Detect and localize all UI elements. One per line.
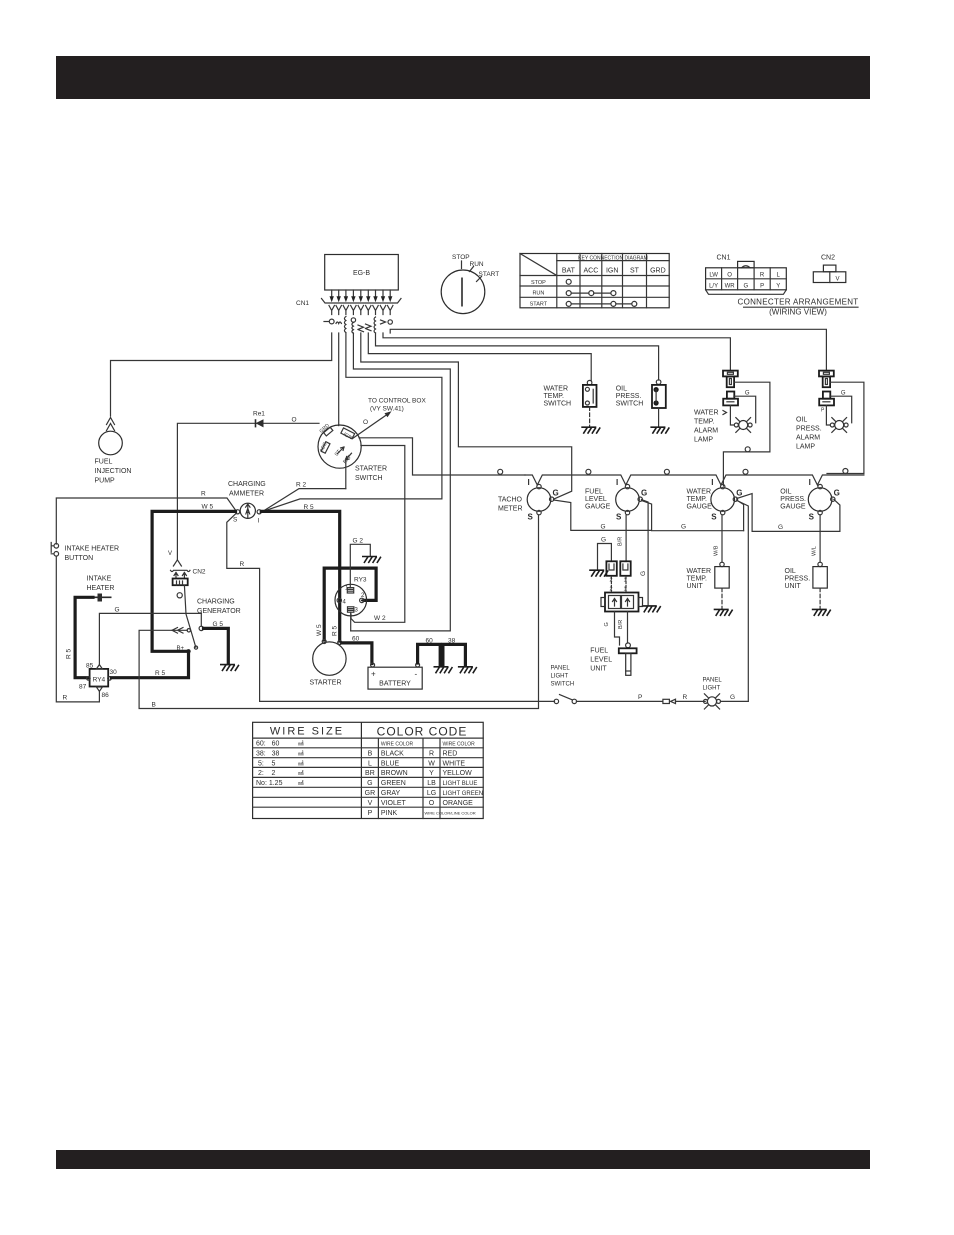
svg-text:STARTER: STARTER xyxy=(355,466,387,473)
svg-text:BLUE: BLUE xyxy=(381,760,400,767)
svg-text:I: I xyxy=(528,478,530,487)
svg-text:P: P xyxy=(638,694,642,701)
svg-text:OIL: OIL xyxy=(796,417,807,424)
svg-text:START: START xyxy=(530,302,548,308)
svg-text:RY4: RY4 xyxy=(93,677,106,684)
wire CN1 pin6 to water temp switch xyxy=(368,333,591,380)
water temp switch xyxy=(544,380,597,407)
svg-text:SWITCH: SWITCH xyxy=(355,475,383,482)
svg-text:ALARM: ALARM xyxy=(796,435,820,442)
wire G panel light up xyxy=(737,501,748,702)
starter switch xyxy=(318,422,387,482)
svg-text:SWITCH: SWITCH xyxy=(616,401,644,408)
svg-text:W 2: W 2 xyxy=(374,615,386,622)
svg-text:VIOLET: VIOLET xyxy=(381,800,407,807)
svg-text:㎟: ㎟ xyxy=(298,779,304,787)
svg-text:B/R: B/R xyxy=(618,620,624,629)
wire W5 starter to RY3-2 xyxy=(324,568,376,640)
svg-text:GRD: GRD xyxy=(650,268,666,275)
svg-text:P: P xyxy=(368,810,373,817)
svg-text:CHARGING: CHARGING xyxy=(197,599,235,606)
svg-text:R 2: R 2 xyxy=(296,482,307,489)
svg-text:㎟: ㎟ xyxy=(298,759,304,767)
svg-text:W 5: W 5 xyxy=(202,504,214,511)
svg-text:RED: RED xyxy=(443,750,458,757)
wire G2 RY3-1 to ground xyxy=(350,544,370,587)
svg-text:LEVEL: LEVEL xyxy=(585,496,607,503)
svg-text:GRAY: GRAY xyxy=(381,790,401,797)
svg-text:CN1: CN1 xyxy=(296,300,309,307)
wire color O label below CN2 xyxy=(177,593,182,598)
svg-text:GAUGE: GAUGE xyxy=(585,504,611,511)
wire W2 RY3-3 down split xyxy=(350,612,352,631)
wire G5 generator to ground xyxy=(199,626,203,630)
EG-B control unit box xyxy=(325,255,399,291)
svg-text:2: 2 xyxy=(610,587,613,593)
svg-text:BATTERY: BATTERY xyxy=(379,681,411,688)
svg-text:ST: ST xyxy=(630,268,640,275)
wire starter switch ST to W2 run xyxy=(351,446,405,623)
svg-text:PUMP: PUMP xyxy=(95,478,116,485)
svg-text:60: 60: 60: 60 xyxy=(256,741,279,748)
gauge WATER TEMP. GAUGE xyxy=(687,478,743,522)
connector CN2 engine side xyxy=(171,569,206,586)
starter motor xyxy=(310,640,347,687)
svg-text:CN2: CN2 xyxy=(821,255,835,262)
dashed wire WT switch to ground xyxy=(589,407,591,427)
svg-text:LB: LB xyxy=(427,780,436,787)
svg-text:5: 5: 5: 5 xyxy=(256,760,276,767)
svg-text:G 5: G 5 xyxy=(213,621,224,628)
relay RY3 xyxy=(335,577,367,616)
svg-text:V: V xyxy=(368,800,373,807)
svg-text:LEVEL: LEVEL xyxy=(590,657,612,664)
svg-text:R 5: R 5 xyxy=(332,626,339,637)
svg-text:LG: LG xyxy=(427,790,436,797)
svg-text:(VY SW.41): (VY SW.41) xyxy=(370,406,404,413)
svg-text:G: G xyxy=(730,694,735,701)
V wire arrow into CN2 xyxy=(173,560,181,566)
svg-text:G: G xyxy=(681,524,686,531)
wire R button to RY4 86 xyxy=(56,556,99,702)
gauge FUEL LEVEL GAUGE xyxy=(585,478,647,522)
key connection diagram table xyxy=(520,254,669,308)
svg-text:RY3: RY3 xyxy=(354,577,367,584)
svg-text:W 5: W 5 xyxy=(316,624,323,636)
svg-text:INJECTION: INJECTION xyxy=(95,468,132,475)
svg-text:UNIT: UNIT xyxy=(590,666,607,673)
oil press unit xyxy=(785,515,828,609)
svg-text:LAMP: LAMP xyxy=(796,444,815,451)
wire R5 intake heater to RY4 87 xyxy=(75,597,93,677)
svg-text:G: G xyxy=(601,524,606,531)
svg-text:AMMETER: AMMETER xyxy=(229,491,264,498)
svg-text:STOP: STOP xyxy=(531,280,546,286)
svg-text:TO CONTROL BOX: TO CONTROL BOX xyxy=(368,398,426,405)
svg-text:RUN: RUN xyxy=(470,261,484,268)
svg-text:No: 1.25: No: 1.25 xyxy=(256,780,283,787)
gauge TACHO METER xyxy=(498,478,559,522)
svg-text:UNIT: UNIT xyxy=(687,583,704,590)
panel light switch xyxy=(551,666,577,704)
svg-text:R 5: R 5 xyxy=(66,649,73,660)
oil press alarm lamp wiring loop xyxy=(830,382,864,473)
svg-text:㎟: ㎟ xyxy=(298,769,304,777)
header bar xyxy=(56,56,870,99)
svg-text:CONNECTER ARRANGEMENT: CONNECTER ARRANGEMENT xyxy=(738,298,859,307)
wire G tacho to G bus xyxy=(554,500,649,530)
svg-text:STOP: STOP xyxy=(452,254,470,261)
svg-text:COLOR CODE: COLOR CODE xyxy=(377,725,468,739)
ground for G5 xyxy=(220,665,239,672)
svg-text:G: G xyxy=(601,537,606,544)
svg-text:O: O xyxy=(292,417,297,424)
svg-text:LIGHT: LIGHT xyxy=(551,674,569,680)
svg-text:GR: GR xyxy=(365,790,376,797)
charging generator xyxy=(172,585,241,653)
svg-text:P: P xyxy=(760,284,764,290)
svg-text:B/R: B/R xyxy=(618,537,624,546)
intake heater button xyxy=(51,543,119,563)
svg-text:R: R xyxy=(63,695,68,702)
wire starter switch IGN to gauges bus xyxy=(359,438,525,475)
svg-text:60: 60 xyxy=(426,638,434,645)
svg-text:RUN: RUN xyxy=(532,291,544,297)
svg-text:S: S xyxy=(616,513,622,522)
svg-text:EG-B: EG-B xyxy=(353,270,370,277)
svg-text:LIGHT BLUE: LIGHT BLUE xyxy=(443,781,478,787)
relay RY4 xyxy=(79,663,117,700)
svg-text:BR: BR xyxy=(365,770,375,777)
svg-text:G: G xyxy=(834,489,840,498)
svg-text:G: G xyxy=(736,489,742,498)
wire OIL switch to ground xyxy=(658,408,660,427)
svg-text:KEY CONNECTION DIAGRAM: KEY CONNECTION DIAGRAM xyxy=(578,256,648,262)
wire G water temp gauge to G bus xyxy=(737,494,753,532)
svg-text:㎟: ㎟ xyxy=(298,749,304,757)
svg-text:L: L xyxy=(368,760,372,767)
CN1 connector wiring view xyxy=(706,255,787,295)
wire 60 battery - to ground xyxy=(418,644,441,665)
svg-text:GAUGE: GAUGE xyxy=(780,504,806,511)
wire CN1 pin9 to oil press alarm lamp xyxy=(390,329,826,370)
svg-text:85: 85 xyxy=(86,663,94,670)
svg-text:INTAKE HEATER: INTAKE HEATER xyxy=(65,546,120,553)
svg-text:30: 30 xyxy=(110,669,118,676)
wire CN1 pin5 to tacho G xyxy=(361,333,572,499)
svg-text:I: I xyxy=(711,478,713,487)
svg-text:2: 2: 2: 2 xyxy=(256,770,276,777)
svg-text:86: 86 xyxy=(102,692,110,699)
svg-text:㎟: ㎟ xyxy=(298,740,304,748)
svg-text:G: G xyxy=(640,571,647,576)
svg-text:CN1: CN1 xyxy=(717,255,731,262)
svg-text:-: - xyxy=(415,670,418,679)
svg-text:O: O xyxy=(727,273,732,279)
svg-text:O: O xyxy=(429,800,435,807)
wire R connector to panel light xyxy=(676,700,706,702)
svg-text:GAUGE: GAUGE xyxy=(687,504,713,511)
svg-text:G: G xyxy=(641,489,647,498)
oil press alarm lamp xyxy=(830,418,848,433)
to control box arrow xyxy=(353,398,427,439)
svg-text:TACHO: TACHO xyxy=(498,497,523,504)
wire G RY4 85 up to G run xyxy=(99,613,201,664)
wire G fuel gauge to G bus and ground xyxy=(642,500,744,606)
svg-text:OIL: OIL xyxy=(780,489,791,496)
gauge OIL PRESS. GAUGE xyxy=(780,478,840,522)
harness inline connector symbols xyxy=(324,317,392,334)
svg-text:BROWN: BROWN xyxy=(381,770,408,777)
intake heater xyxy=(87,576,115,602)
CN1 pin arrows from EG-B xyxy=(330,290,393,302)
svg-text:BLACK: BLACK xyxy=(381,750,404,757)
svg-text:L/Y: L/Y xyxy=(709,284,718,290)
svg-text:WIRE COLOR: WIRE COLOR xyxy=(381,742,414,748)
panel light lamp xyxy=(703,678,723,710)
svg-text:V: V xyxy=(835,277,839,283)
svg-text:INTAKE: INTAKE xyxy=(87,576,112,583)
water temp alarm lamp wiring loop xyxy=(734,382,770,452)
svg-text:B: B xyxy=(152,702,156,709)
svg-text:+: + xyxy=(371,670,376,679)
svg-text:B+: B+ xyxy=(177,646,185,652)
svg-text:G: G xyxy=(743,284,748,290)
svg-text:W: W xyxy=(428,760,435,767)
svg-text:R: R xyxy=(201,491,206,498)
svg-text:OIL: OIL xyxy=(785,568,796,575)
wire starter switch BAT down to R2 xyxy=(345,459,347,489)
wire CN1 pin7 to oil press switch xyxy=(376,333,659,380)
svg-text:G 2: G 2 xyxy=(353,538,364,545)
oil press alarm lamp connector xyxy=(819,371,834,388)
water temp alarm lamp xyxy=(734,418,752,433)
oil press alarm lamp lower connector xyxy=(819,391,846,406)
svg-text:G: G xyxy=(553,489,559,498)
svg-text:PRESS.: PRESS. xyxy=(785,576,811,583)
svg-text:LAMP: LAMP xyxy=(694,437,713,444)
svg-text:1: 1 xyxy=(624,587,627,593)
svg-text:R: R xyxy=(429,750,434,757)
svg-text:R 5: R 5 xyxy=(155,670,166,677)
wire CN1 pin4 to RY3 terminal 3 (W2) xyxy=(351,333,451,631)
svg-text:S: S xyxy=(809,513,815,522)
footer bar xyxy=(56,1150,870,1169)
svg-text:Y: Y xyxy=(429,770,434,777)
svg-text:I: I xyxy=(258,518,260,525)
wire 60 starter to battery + xyxy=(342,643,372,664)
wire B/R fuel gauge S down xyxy=(625,515,627,562)
svg-text:WIRE SIZE: WIRE SIZE xyxy=(270,726,344,738)
svg-text:S: S xyxy=(528,513,534,522)
svg-text:Re1: Re1 xyxy=(253,411,265,418)
svg-text:GENERATOR: GENERATOR xyxy=(197,608,241,615)
svg-text:STARTER: STARTER xyxy=(310,680,342,687)
svg-text:IGN: IGN xyxy=(606,268,618,275)
svg-text:ACC: ACC xyxy=(584,268,599,275)
CN2 connector wiring view xyxy=(813,255,846,283)
svg-text:WATER: WATER xyxy=(687,489,712,496)
fuel injection pump arrow xyxy=(107,418,115,431)
svg-text:TEMP.: TEMP. xyxy=(687,496,708,503)
svg-text:WATER: WATER xyxy=(544,386,569,393)
svg-text:WHITE: WHITE xyxy=(443,760,466,767)
wire P panel light switch to connector xyxy=(577,700,663,702)
wire CN1 pin8 to water temp alarm lamp xyxy=(383,333,730,371)
svg-text:PRESS.: PRESS. xyxy=(780,496,806,503)
svg-text:O: O xyxy=(363,419,368,426)
svg-text:FUEL: FUEL xyxy=(95,459,113,466)
svg-text:WIRE COLOR: WIRE COLOR xyxy=(443,742,476,748)
svg-text:WATER: WATER xyxy=(687,568,712,575)
gauge feed bus with connector rings xyxy=(525,475,864,485)
wire G panel light to gauge G bus xyxy=(721,700,749,702)
svg-text:PANEL: PANEL xyxy=(703,678,723,684)
svg-text:W/L: W/L xyxy=(812,546,818,556)
fuel connector upper xyxy=(606,561,630,583)
svg-text:S: S xyxy=(233,517,238,524)
water temp alarm lamp lower connector xyxy=(723,391,750,406)
wire R2 ammeter to starter switch xyxy=(261,489,346,513)
svg-text:S: S xyxy=(711,513,717,522)
svg-text:WIRE COLOR/LINE COLOR: WIRE COLOR/LINE COLOR xyxy=(425,811,476,816)
svg-text:R 5: R 5 xyxy=(304,504,315,511)
svg-text:PINK: PINK xyxy=(381,810,398,817)
svg-text:ALARM: ALARM xyxy=(694,428,718,435)
svg-text:WATER: WATER xyxy=(694,410,719,417)
wire R5 RY4 30 to generator B+ xyxy=(112,653,189,678)
water temp unit xyxy=(687,515,730,609)
svg-text:G: G xyxy=(604,622,610,626)
wire CN1 pin2 to starter switch xyxy=(338,333,340,426)
svg-text:CHARGING: CHARGING xyxy=(228,481,266,488)
wire G fuel connector to ground xyxy=(598,544,612,570)
wire R ammeter S to intake heater button xyxy=(56,498,236,544)
connecter arrangement caption xyxy=(738,298,859,317)
battery xyxy=(368,663,422,689)
svg-text:LW: LW xyxy=(709,273,718,279)
svg-text:BAT: BAT xyxy=(562,268,576,275)
svg-text:UNIT: UNIT xyxy=(785,583,802,590)
wire W5 ammeter S to generator B+ xyxy=(152,511,235,651)
svg-text:GREEN: GREEN xyxy=(381,780,406,787)
svg-text:TEMP.: TEMP. xyxy=(687,576,708,583)
svg-text:LIGHT: LIGHT xyxy=(703,686,721,692)
svg-text:I: I xyxy=(616,478,618,487)
wire G and B/R fuel lower connector to fuel level unit xyxy=(615,612,628,646)
connector mating dashes xyxy=(611,577,626,592)
svg-text:BUTTON: BUTTON xyxy=(65,555,94,562)
wire ACC through Re1 to CN2 xyxy=(177,423,319,559)
fuel connector lower xyxy=(601,593,643,612)
svg-text:PRESS.: PRESS. xyxy=(796,426,822,433)
wire B generator brush to tacho S xyxy=(139,515,538,709)
CN1 harness fork connectors xyxy=(329,306,393,315)
svg-text:R: R xyxy=(683,694,688,701)
svg-text:ORANGE: ORANGE xyxy=(443,800,474,807)
svg-text:TEMP.: TEMP. xyxy=(694,419,715,426)
inline connector xyxy=(663,699,676,703)
wire R ammeter S down to panel light switch xyxy=(227,514,555,702)
svg-text:METER: METER xyxy=(498,506,523,513)
svg-text:R: R xyxy=(240,561,245,568)
CN1 connector strip xyxy=(322,299,402,304)
svg-text:PANEL: PANEL xyxy=(551,666,571,672)
svg-text:LIGHT GREEN: LIGHT GREEN xyxy=(443,791,484,797)
svg-text:HEATER: HEATER xyxy=(87,585,115,592)
wire R5 ammeter I to RY3-4 and starter xyxy=(261,511,339,641)
diode Re1 xyxy=(253,411,265,428)
wire size color code table xyxy=(253,722,484,818)
svg-text:SWITCH: SWITCH xyxy=(544,401,572,408)
svg-text:G: G xyxy=(367,780,372,787)
svg-text:R: R xyxy=(760,273,765,279)
svg-text:G: G xyxy=(115,607,120,614)
svg-text:I: I xyxy=(809,478,811,487)
charging ammeter xyxy=(228,481,266,525)
svg-text:(WIRING VIEW): (WIRING VIEW) xyxy=(769,308,827,317)
svg-text:YELLOW: YELLOW xyxy=(443,770,473,777)
wire G oil gauge to G bus xyxy=(752,500,840,532)
key switch xyxy=(441,254,499,314)
svg-text:B: B xyxy=(368,750,373,757)
svg-text:38: 38 xyxy=(448,638,456,645)
svg-text:V: V xyxy=(168,551,172,557)
svg-text:OIL: OIL xyxy=(616,386,627,393)
wire CN1 pin3 to ammeter I (R) xyxy=(261,333,442,512)
wire 38 ground strap xyxy=(443,644,466,665)
fuel injection pump xyxy=(95,431,132,484)
svg-text:60: 60 xyxy=(352,636,360,643)
svg-text:FUEL: FUEL xyxy=(590,648,608,655)
oil press switch xyxy=(616,380,666,408)
svg-text:G: G xyxy=(778,524,783,531)
svg-text:TEMP.: TEMP. xyxy=(544,393,565,400)
svg-text:CN2: CN2 xyxy=(193,569,206,576)
wire CN1 pin1 to fuel injection pump xyxy=(111,333,332,416)
svg-text:WR: WR xyxy=(725,284,736,290)
svg-text:W/B: W/B xyxy=(714,545,720,556)
water temp alarm lamp connector xyxy=(723,371,738,388)
svg-text:PRESS.: PRESS. xyxy=(616,393,642,400)
svg-text:38: 38: 38: 38 xyxy=(256,750,279,757)
fuel level unit float xyxy=(590,643,636,675)
svg-text:SWITCH: SWITCH xyxy=(551,682,575,688)
svg-text:87: 87 xyxy=(79,684,87,691)
svg-text:FUEL: FUEL xyxy=(585,489,603,496)
svg-text:Y: Y xyxy=(776,284,780,290)
